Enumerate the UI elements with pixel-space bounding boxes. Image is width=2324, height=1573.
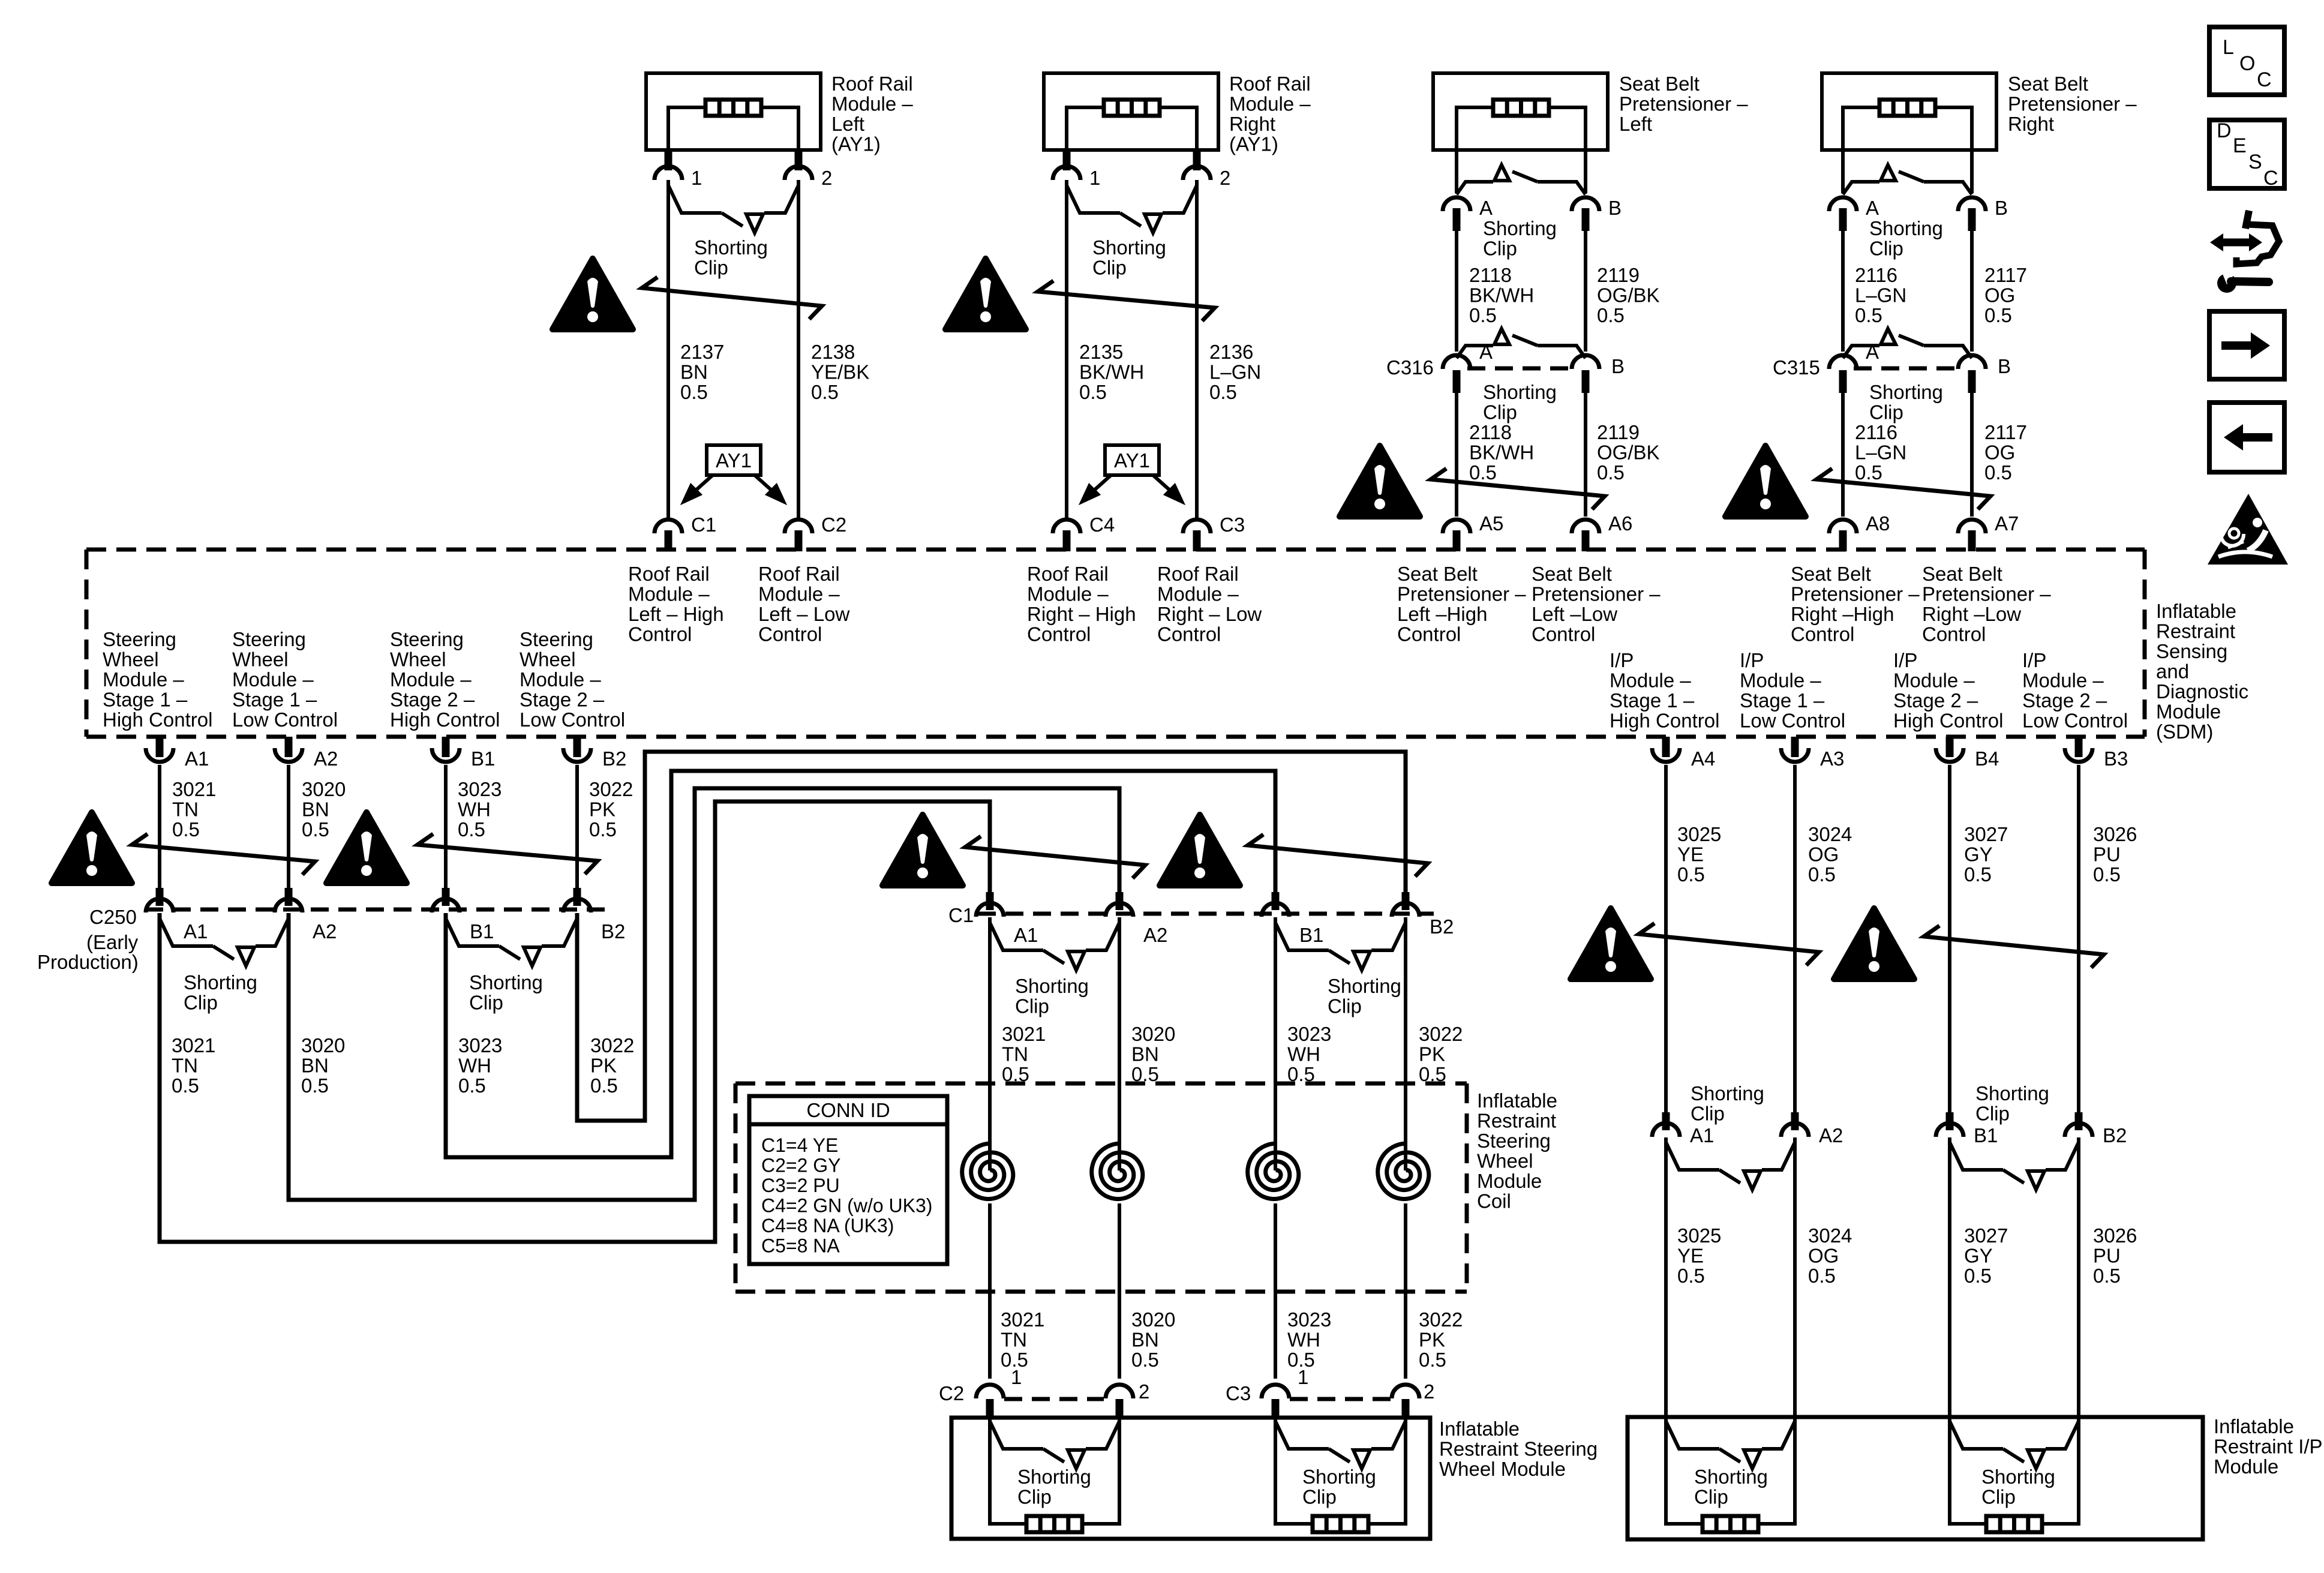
wire 3020 BN 0.5 <box>1118 917 1121 1170</box>
svg-text:Seat Belt: Seat Belt <box>1922 563 2002 585</box>
svg-text:BK/WH: BK/WH <box>1469 284 1534 307</box>
svg-text:PK: PK <box>589 798 615 821</box>
svg-text:Module –: Module – <box>520 668 601 691</box>
svg-text:A8: A8 <box>1866 512 1890 535</box>
svg-text:Module –: Module – <box>232 668 314 691</box>
svg-text:Roof Rail: Roof Rail <box>1157 563 1239 585</box>
wire 3022 PK 0.5 <box>1404 917 1407 1170</box>
svg-text:B2: B2 <box>601 920 625 942</box>
svg-text:0.5: 0.5 <box>172 1074 199 1097</box>
svg-text:OG/BK: OG/BK <box>1597 442 1660 464</box>
svg-text:WH: WH <box>1287 1043 1320 1065</box>
inline connector C316 <box>1467 367 1578 371</box>
wire: SDM B2 to coil B2 routing <box>577 752 1406 1121</box>
svg-text:A2: A2 <box>1143 924 1167 946</box>
svg-text:Shorting: Shorting <box>1691 1082 1764 1104</box>
shorting clip (roof rail right) <box>1067 185 1197 233</box>
svg-text:C316: C316 <box>1386 356 1434 379</box>
svg-text:Control: Control <box>1532 623 1595 646</box>
svg-text:Stage 2 –: Stage 2 – <box>520 689 605 711</box>
shorting clip (I/P module stage2) <box>1950 1421 2079 1469</box>
svg-text:Left –High: Left –High <box>1397 603 1487 625</box>
warning triangle <box>326 812 407 883</box>
warning triangle <box>1340 446 1420 517</box>
connector A4 (SDM bottom) <box>1662 737 1670 757</box>
connector A7 (SDM top) <box>1958 520 1986 533</box>
svg-text:Shorting: Shorting <box>1483 217 1557 239</box>
module box: Inflatable Restraint Steering Wheel Module <box>951 1418 1430 1539</box>
svg-text:Stage 1 –: Stage 1 – <box>1610 689 1695 712</box>
svg-text:Shorting: Shorting <box>1975 1082 2049 1104</box>
wire 3024 OG 0.5 <box>1793 765 1797 1112</box>
svg-text:YE: YE <box>1677 1245 1704 1267</box>
connector pin 1 (roof rail right) <box>1063 150 1071 170</box>
svg-text:Steering: Steering <box>1477 1130 1551 1152</box>
svg-text:AY1: AY1 <box>1114 449 1150 472</box>
svg-text:TN: TN <box>172 1055 198 1077</box>
connector C1 (SDM top) <box>666 517 670 519</box>
svg-text:0.5: 0.5 <box>458 818 485 840</box>
svg-text:Module –: Module – <box>390 668 472 691</box>
svg-text:OG: OG <box>1808 843 1839 866</box>
svg-text:(Early: (Early <box>86 931 139 953</box>
svg-text:S: S <box>2248 151 2262 173</box>
svg-text:Clip: Clip <box>1483 238 1517 260</box>
svg-text:A1: A1 <box>185 748 209 770</box>
svg-text:Restraint I/P: Restraint I/P <box>2214 1436 2323 1458</box>
svg-text:Module: Module <box>1477 1170 1542 1192</box>
svg-text:3027: 3027 <box>1964 823 2008 845</box>
svg-text:Shorting: Shorting <box>1981 1466 2055 1488</box>
svg-text:BN: BN <box>1131 1043 1159 1065</box>
svg-text:Module –: Module – <box>831 93 913 115</box>
svg-text:0.5: 0.5 <box>1964 1265 1992 1287</box>
svg-text:B1: B1 <box>470 920 494 942</box>
svg-text:O: O <box>2239 52 2255 75</box>
inline connector C1 (coil) <box>978 912 1434 916</box>
svg-text:A2: A2 <box>313 920 337 942</box>
svg-text:Wheel: Wheel <box>232 649 289 671</box>
wire: SDM A1 to coil A1 routing <box>160 801 990 1242</box>
svg-text:Clip: Clip <box>469 992 503 1014</box>
svg-text:C3: C3 <box>1220 514 1245 536</box>
svg-text:Right: Right <box>2008 113 2054 135</box>
svg-text:C3=2 PU: C3=2 PU <box>761 1175 840 1196</box>
svg-text:WH: WH <box>458 1055 491 1077</box>
svg-text:Clip: Clip <box>1869 238 1903 260</box>
svg-text:TN: TN <box>172 798 199 821</box>
svg-text:2117: 2117 <box>1984 421 2027 443</box>
svg-text:Right: Right <box>1229 113 1275 135</box>
svg-text:High Control: High Control <box>1610 710 1719 732</box>
svg-text:CONN ID: CONN ID <box>806 1099 890 1121</box>
wire 3026 PU 0.5 <box>2077 1137 2080 1419</box>
svg-text:3022: 3022 <box>1419 1023 1463 1045</box>
svg-text:Left – High: Left – High <box>628 603 724 625</box>
svg-text:B4: B4 <box>1975 748 1999 770</box>
svg-text:Pretensioner –: Pretensioner – <box>1922 583 2051 605</box>
svg-text:0.5: 0.5 <box>172 818 200 840</box>
svg-text:B: B <box>1998 355 2011 377</box>
connector pin B (pretensioner right) <box>1958 197 1986 211</box>
wire: SDM A2 to coil A2 routing <box>289 788 1119 1200</box>
svg-text:Stage 2 –: Stage 2 – <box>2022 689 2107 712</box>
squib (I/P stage2) <box>1986 1516 2042 1532</box>
caution pointer line <box>965 836 1145 878</box>
svg-text:B2: B2 <box>602 748 626 770</box>
svg-text:0.5: 0.5 <box>589 818 617 840</box>
caution pointer line <box>1038 281 1215 321</box>
svg-text:Restraint: Restraint <box>1477 1110 1556 1132</box>
svg-text:2136: 2136 <box>1209 341 1253 363</box>
shorting clip (I/P B1-B2) <box>1950 1142 2079 1190</box>
svg-text:C315: C315 <box>1773 356 1820 379</box>
svg-text:0.5: 0.5 <box>2093 1265 2121 1287</box>
svg-text:Wheel Module: Wheel Module <box>1439 1458 1566 1480</box>
svg-text:Control: Control <box>628 623 692 646</box>
svg-text:GY: GY <box>1964 843 1993 866</box>
svg-text:D: D <box>2217 119 2232 142</box>
svg-text:(AY1): (AY1) <box>1229 133 1278 155</box>
shorting clip (SWM stage1) <box>990 1421 1119 1469</box>
svg-text:Stage 1 –: Stage 1 – <box>1740 689 1825 712</box>
warning triangle <box>553 259 633 329</box>
connector A1 (SDM bottom) <box>156 737 164 757</box>
squib wires (I/P stage1) <box>1666 1419 1703 1524</box>
svg-text:Shorting: Shorting <box>694 236 768 259</box>
icon: airbag caution triangle <box>2208 494 2288 565</box>
svg-text:B: B <box>1608 197 1622 219</box>
wire 2116 L-GN 0.5 <box>1841 393 1845 517</box>
svg-text:Stage 1 –: Stage 1 – <box>232 689 317 711</box>
SDM dashed box (Inflatable Restraint Sensing and Diagnostic Module) <box>86 548 2145 552</box>
svg-text:2137: 2137 <box>680 341 724 363</box>
svg-text:Clip: Clip <box>694 257 728 279</box>
svg-text:B2: B2 <box>1430 915 1454 938</box>
svg-text:2: 2 <box>1424 1380 1434 1403</box>
svg-text:A1: A1 <box>1014 924 1038 946</box>
wire (pretensioner right A) <box>1841 150 1845 193</box>
svg-text:0.5: 0.5 <box>1597 304 1625 326</box>
svg-text:2119: 2119 <box>1597 421 1640 443</box>
svg-text:B: B <box>1995 197 2008 219</box>
wire 2118 BK/WH 0.5 <box>1455 393 1458 517</box>
svg-text:B2: B2 <box>2103 1124 2127 1146</box>
wire 2137 BN 0.5 <box>666 180 670 517</box>
icon: right arrow box <box>2209 311 2284 379</box>
svg-text:3023: 3023 <box>458 778 502 800</box>
wire 3027 GY 0.5 <box>1948 1137 1951 1419</box>
svg-text:Left: Left <box>831 113 864 135</box>
icon: LOC box <box>2209 27 2284 95</box>
squib (SWM stage1) <box>1026 1516 1082 1532</box>
clockspring coil <box>1378 1143 1429 1199</box>
svg-text:Shorting: Shorting <box>469 971 543 993</box>
svg-text:PU: PU <box>2093 1245 2121 1267</box>
clockspring coil <box>1092 1143 1143 1199</box>
shorting clip (pretensioner left) <box>1457 165 1586 194</box>
svg-text:2: 2 <box>1220 167 1230 189</box>
svg-text:Seat Belt: Seat Belt <box>2008 73 2088 95</box>
connector pin 2 (roof rail right) <box>1193 150 1201 170</box>
svg-text:3020: 3020 <box>1131 1308 1175 1331</box>
squib wires (SWM stage2) <box>1275 1419 1313 1524</box>
module box: Inflatable Restraint I/P Module <box>1628 1417 2203 1539</box>
svg-text:2118: 2118 <box>1469 421 1512 443</box>
shorting clip (SWM stage2) <box>1275 1421 1406 1469</box>
caution pointer line <box>1431 469 1605 509</box>
svg-text:L: L <box>2223 36 2234 59</box>
svg-text:A6: A6 <box>1608 512 1632 535</box>
AY1 splice label box <box>1105 445 1159 475</box>
svg-text:AY1: AY1 <box>716 449 752 472</box>
connector A3 (SDM bottom) <box>1791 737 1799 757</box>
svg-text:0.5: 0.5 <box>1855 461 1882 484</box>
caution pointer line <box>1924 926 2104 968</box>
svg-text:0.5: 0.5 <box>1984 461 2012 484</box>
wire 3023 WH 0.5 <box>444 765 448 888</box>
warning triangle <box>1725 446 1806 517</box>
svg-text:A: A <box>1479 341 1493 363</box>
svg-text:Clip: Clip <box>1092 257 1127 279</box>
svg-text:C: C <box>2257 68 2272 91</box>
connector C3 (SDM top) <box>1195 517 1199 519</box>
inline connector C250 (Early Production) <box>145 908 607 912</box>
svg-text:GY: GY <box>1964 1245 1993 1267</box>
connector pin B1 (C250) <box>442 888 450 906</box>
svg-text:Seat Belt: Seat Belt <box>1532 563 1612 585</box>
svg-text:Module: Module <box>2214 1455 2278 1478</box>
svg-text:C1=4 YE: C1=4 YE <box>761 1134 838 1156</box>
svg-text:3021: 3021 <box>172 1034 215 1056</box>
svg-text:C250: C250 <box>89 906 137 928</box>
svg-text:0.5: 0.5 <box>1079 381 1107 403</box>
svg-text:Shorting: Shorting <box>1328 975 1401 997</box>
wire 2119 OG/BK 0.5 <box>1584 231 1587 352</box>
svg-text:0.5: 0.5 <box>1419 1349 1446 1371</box>
connector pin A2 (C250) <box>285 888 293 906</box>
wire: SDM B1 to coil B1 routing <box>446 771 1275 1157</box>
wire 2117 OG 0.5 <box>1970 393 1974 517</box>
connector pin A1 (C250) <box>156 888 164 906</box>
svg-text:and: and <box>2156 661 2189 683</box>
connector B1 (SDM bottom) <box>442 737 450 757</box>
svg-text:B3: B3 <box>2104 748 2128 770</box>
svg-text:0.5: 0.5 <box>1677 1265 1705 1287</box>
connector pin 1 (roof rail left) <box>665 150 672 170</box>
svg-text:Module –: Module – <box>1157 583 1239 605</box>
svg-text:3027: 3027 <box>1964 1224 2008 1247</box>
svg-text:Right –Low: Right –Low <box>1922 603 2021 625</box>
svg-text:PU: PU <box>2093 843 2121 866</box>
svg-text:BN: BN <box>680 361 708 383</box>
svg-text:2116: 2116 <box>1855 421 1897 443</box>
svg-text:L–GN: L–GN <box>1209 361 1261 383</box>
svg-text:0.5: 0.5 <box>302 818 329 840</box>
svg-text:3020: 3020 <box>301 1034 345 1056</box>
svg-text:L–GN: L–GN <box>1855 284 1906 307</box>
svg-text:C4: C4 <box>1089 514 1115 536</box>
svg-text:Low Control: Low Control <box>232 709 338 731</box>
wire 2116 L-GN 0.5 <box>1841 231 1845 352</box>
svg-text:Shorting: Shorting <box>184 971 257 993</box>
caution pointer line <box>1639 923 1819 965</box>
wire (pretensioner left A) <box>1455 150 1458 193</box>
svg-text:Restraint: Restraint <box>2156 620 2235 643</box>
svg-text:Pretensioner –: Pretensioner – <box>1791 583 1920 605</box>
clockspring coil <box>1248 1143 1299 1199</box>
svg-text:Roof Rail: Roof Rail <box>628 563 710 585</box>
svg-text:A: A <box>1866 197 1879 219</box>
svg-text:2116: 2116 <box>1855 264 1897 286</box>
wire 3024 OG 0.5 <box>1793 1137 1797 1419</box>
shorting clip (coil A1-A2) <box>990 923 1119 970</box>
connector pin 2 (roof rail left) <box>795 150 803 170</box>
svg-text:Shorting: Shorting <box>1869 381 1943 403</box>
svg-text:A: A <box>1479 197 1493 219</box>
svg-text:Clip: Clip <box>1328 995 1362 1017</box>
svg-text:Production): Production) <box>37 951 139 973</box>
svg-text:Low Control: Low Control <box>2022 710 2128 732</box>
squib (I/P stage1) <box>1703 1516 1758 1532</box>
svg-text:2135: 2135 <box>1079 341 1123 363</box>
shorting clip (I/P module stage1) <box>1666 1421 1795 1469</box>
wire 3021 TN 0.5 <box>158 765 161 888</box>
svg-text:A7: A7 <box>1995 512 2019 535</box>
icon: DESC box <box>2209 120 2284 188</box>
svg-text:3021: 3021 <box>1001 1308 1044 1331</box>
svg-text:BN: BN <box>302 798 329 821</box>
connector B4 (SDM bottom) <box>1946 737 1954 757</box>
svg-text:Low Control: Low Control <box>520 709 625 731</box>
svg-text:Clip: Clip <box>1302 1486 1337 1508</box>
svg-text:0.5: 0.5 <box>811 381 839 403</box>
svg-text:Module –: Module – <box>1027 583 1109 605</box>
connector pin B2 (I/P inline) <box>2075 1112 2083 1130</box>
warning triangle <box>1160 815 1240 885</box>
wire 2117 OG 0.5 <box>1970 231 1974 352</box>
shorting clip (coil B1-B2) <box>1275 923 1406 970</box>
svg-text:C2: C2 <box>821 514 846 536</box>
svg-text:Right – Low: Right – Low <box>1157 603 1262 625</box>
svg-text:3023: 3023 <box>458 1034 502 1056</box>
svg-text:Clip: Clip <box>1483 401 1517 424</box>
svg-text:Control: Control <box>1922 623 1986 646</box>
svg-text:0.5: 0.5 <box>1469 461 1497 484</box>
svg-text:2117: 2117 <box>1984 264 2027 286</box>
connector C4 (SDM top) <box>1065 517 1068 519</box>
svg-text:0.5: 0.5 <box>458 1074 486 1097</box>
wire 2138 YE/BK 0.5 <box>797 180 800 517</box>
svg-text:3020: 3020 <box>1131 1023 1175 1045</box>
svg-text:0.5: 0.5 <box>1855 304 1882 326</box>
caution pointer line <box>1248 834 1428 876</box>
svg-text:Control: Control <box>1157 623 1221 646</box>
svg-text:3020: 3020 <box>302 778 346 800</box>
svg-text:Inflatable: Inflatable <box>1477 1089 1557 1112</box>
svg-text:Shorting: Shorting <box>1015 975 1089 997</box>
svg-text:Module: Module <box>2156 701 2221 723</box>
svg-text:BK/WH: BK/WH <box>1079 361 1144 383</box>
svg-text:C2=2 GY: C2=2 GY <box>761 1155 841 1176</box>
svg-text:Inflatable: Inflatable <box>1439 1418 1520 1440</box>
svg-text:Stage 2 –: Stage 2 – <box>1893 689 1978 712</box>
icon: left arrow box <box>2209 403 2284 472</box>
svg-text:TN: TN <box>1001 1329 1027 1351</box>
wire 3027 GY 0.5 <box>1948 765 1951 1112</box>
svg-text:C4=2 GN (w/o UK3): C4=2 GN (w/o UK3) <box>761 1195 932 1217</box>
svg-text:Module –: Module – <box>628 583 710 605</box>
svg-text:Pretensioner –: Pretensioner – <box>1532 583 1661 605</box>
svg-text:OG: OG <box>1984 284 2015 307</box>
svg-text:Shorting: Shorting <box>1694 1466 1768 1488</box>
warning triangle <box>52 812 132 883</box>
svg-text:L–GN: L–GN <box>1855 442 1906 464</box>
module: Roof Rail Module - Left (AY1) <box>646 73 821 150</box>
svg-text:Left: Left <box>1619 113 1652 135</box>
connector B3 (SDM bottom) <box>2075 737 2083 757</box>
wire 3026 PU 0.5 <box>2077 765 2080 1112</box>
svg-text:Clip: Clip <box>1017 1486 1052 1508</box>
svg-text:Left – Low: Left – Low <box>758 603 849 625</box>
svg-text:YE: YE <box>1677 843 1704 866</box>
svg-text:High Control: High Control <box>390 709 500 731</box>
svg-text:I/P: I/P <box>1610 649 1634 671</box>
wire 3022 PK 0.5 <box>575 765 579 888</box>
svg-text:3022: 3022 <box>589 778 633 800</box>
wire <box>988 1203 992 1379</box>
svg-text:I/P: I/P <box>1740 649 1764 671</box>
svg-text:1: 1 <box>691 167 702 189</box>
wire <box>1274 1203 1277 1379</box>
connector pin A1 (coil C1) <box>986 892 994 910</box>
svg-text:C3: C3 <box>1226 1382 1251 1404</box>
connector A2 (SDM bottom) <box>285 737 293 757</box>
svg-text:Inflatable: Inflatable <box>2156 600 2236 622</box>
svg-text:B1: B1 <box>1299 924 1323 946</box>
shorting clip (C250 B1-B2) <box>446 918 577 966</box>
svg-text:A1: A1 <box>184 920 208 942</box>
wire (pretensioner right B) <box>1970 150 1974 193</box>
svg-text:OG/BK: OG/BK <box>1597 284 1660 307</box>
connector pin B1 (coil C1) <box>1272 892 1280 910</box>
wire 3025 YE 0.5 <box>1664 765 1668 1112</box>
svg-text:0.5: 0.5 <box>1808 1265 1836 1287</box>
shorting clip (I/P A1-A2) <box>1666 1142 1795 1190</box>
svg-text:2138: 2138 <box>811 341 855 363</box>
svg-text:Pretensioner –: Pretensioner – <box>1397 583 1526 605</box>
svg-text:Shorting: Shorting <box>1017 1466 1091 1488</box>
caution pointer line <box>642 277 822 319</box>
svg-text:B1: B1 <box>471 748 495 770</box>
svg-text:TN: TN <box>1002 1043 1028 1065</box>
svg-text:High Control: High Control <box>103 709 212 731</box>
svg-text:0.5: 0.5 <box>1808 863 1836 885</box>
squib wires (I/P stage2) <box>1950 1419 1986 1524</box>
svg-text:Clip: Clip <box>1691 1103 1725 1125</box>
svg-text:Clip: Clip <box>1981 1486 2016 1508</box>
svg-text:3023: 3023 <box>1287 1023 1331 1045</box>
svg-text:A2: A2 <box>314 748 338 770</box>
svg-text:Module –: Module – <box>2022 670 2104 692</box>
svg-text:WH: WH <box>458 798 491 821</box>
svg-text:0.5: 0.5 <box>1597 461 1625 484</box>
warning triangle <box>1834 908 1914 979</box>
svg-text:3026: 3026 <box>2093 823 2137 845</box>
svg-text:Low Control: Low Control <box>1740 710 1845 732</box>
svg-text:BK/WH: BK/WH <box>1469 442 1534 464</box>
connector pin A2 (I/P inline) <box>1791 1112 1799 1130</box>
